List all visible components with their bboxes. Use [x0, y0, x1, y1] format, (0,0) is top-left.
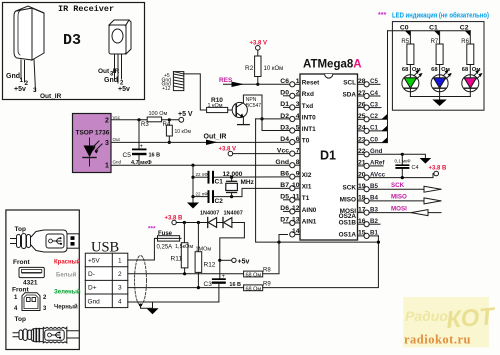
resistor R3 [141, 111, 167, 128]
svg-text:16 В: 16 В [149, 153, 161, 159]
MCU pin 13 D7 AIN1 [280, 217, 317, 226]
USB connectors box [6, 210, 79, 350]
wire emitter to ground [242, 117, 244, 124]
svg-text:C4: C4 [412, 165, 419, 171]
ground symbol USB [139, 302, 159, 314]
MCU pin 8 Gnd [275, 159, 300, 168]
svg-text:1МОм: 1МОм [196, 247, 212, 253]
op-amp? no: MCU U1 ATMega8A body [300, 59, 362, 241]
resistor R8 68 Ом [244, 268, 272, 279]
ground symbol (crystal caps) [187, 203, 199, 209]
svg-text:R9: R9 [263, 282, 271, 288]
MCU pin 20 AVcc [358, 171, 386, 180]
LED C0 [402, 70, 422, 97]
svg-text:1: 1 [105, 163, 109, 170]
svg-text:+: + [140, 144, 144, 150]
resistor R7 68 Ом [431, 31, 450, 75]
terminal +5 V [178, 111, 193, 122]
wire gnd branch down [192, 165, 194, 202]
svg-text:SCK: SCK [343, 185, 357, 192]
cable ellipse [135, 255, 147, 305]
svg-text:10: 10 [292, 182, 300, 189]
svg-text:Vcc: Vcc [113, 115, 121, 120]
wire stub pin 3 [284, 106, 290, 108]
MCU pin 12 D6 AIN0 [280, 205, 317, 214]
svg-text:2: 2 [118, 271, 122, 278]
node crystal gnd branch [191, 164, 194, 167]
wire D- rail [128, 273, 244, 275]
capacitor C5 [123, 120, 161, 166]
MCU pin 3 D1 Txd [280, 101, 313, 110]
svg-text:Reset: Reset [302, 80, 320, 87]
svg-text:C2: C2 [215, 198, 224, 205]
wire Gnd pin22 [369, 154, 425, 158]
transistor Q1 NPN BC547 [232, 97, 261, 118]
wire C0 to LED bus [369, 137, 387, 143]
MCU pin 18 B4 MISO [340, 195, 379, 204]
USB pin table [85, 253, 128, 307]
LED cathode rail [410, 96, 470, 98]
svg-text:20: 20 [358, 171, 366, 178]
svg-text:17: 17 [358, 206, 366, 213]
svg-text:68: 68 [431, 67, 438, 73]
node C5 branch [137, 118, 140, 121]
MCU pin 28 C5 SCL [343, 78, 378, 87]
svg-text:Vcc: Vcc [277, 147, 289, 154]
svg-text:19: 19 [358, 183, 366, 190]
wire R3 to +5V [162, 119, 179, 121]
svg-text:SDA: SDA [343, 91, 357, 98]
USB-A plug drawing top [11, 230, 80, 252]
svg-text:10 кОм: 10 кОм [175, 129, 192, 135]
svg-text:radiokot.ru: radiokot.ru [404, 333, 471, 347]
wire fuse to +3.8 node [183, 223, 185, 243]
svg-text:AIN1: AIN1 [302, 218, 317, 225]
MCU pin 2 D0 Rxd [280, 90, 314, 99]
ground symbol LED box [432, 97, 446, 107]
svg-text:68: 68 [462, 67, 469, 73]
TSOP 1736 module U2 [73, 114, 112, 173]
svg-text:1: 1 [20, 77, 24, 84]
MCU pin 15 B1 OS1A [339, 230, 379, 239]
resistor R9 68 Ом [244, 282, 272, 293]
wire C2 to LED bus [369, 114, 387, 120]
svg-text:11: 11 [292, 194, 299, 201]
svg-text:T0: T0 [302, 137, 310, 144]
svg-text:Front: Front [13, 259, 30, 266]
svg-text:1 кОм: 1 кОм [208, 103, 223, 109]
crystal X1 12.000 MHz [223, 171, 255, 198]
wire R8 to pin14 net [263, 242, 279, 274]
svg-text:R2: R2 [245, 65, 254, 72]
svg-text:C1: C1 [429, 24, 438, 31]
svg-text:23: 23 [358, 136, 366, 143]
resistor R6 68 Ом [461, 31, 480, 75]
svg-text:C0: C0 [400, 24, 409, 31]
capacitor C4 0,1 мкФ [395, 154, 419, 177]
USB-B front view [14, 293, 47, 312]
label LED индикация [378, 11, 489, 20]
wire R9 to B1 net [263, 236, 379, 288]
svg-text:24: 24 [358, 125, 366, 132]
TSOP pin tiny labels [113, 115, 122, 165]
svg-text:SCL: SCL [343, 80, 356, 87]
wire R10 to base [228, 109, 237, 111]
svg-text:***: *** [378, 12, 386, 19]
svg-text:16: 16 [358, 218, 366, 225]
svg-text:MOSI: MOSI [391, 205, 407, 212]
svg-text:22: 22 [358, 148, 366, 155]
resistor R5 68 Ом [401, 31, 420, 75]
resistor R4 [163, 120, 192, 144]
wire ISP to R10 [184, 74, 207, 110]
svg-text:Txd: Txd [302, 103, 313, 110]
svg-text:R4: R4 [163, 122, 171, 128]
svg-text:Out_IR: Out_IR [40, 93, 62, 100]
svg-text:OS1A: OS1A [339, 231, 357, 238]
node +5v [218, 259, 221, 262]
wire ARef stub [369, 165, 383, 167]
svg-text:28: 28 [358, 78, 366, 85]
svg-text:T1: T1 [302, 195, 310, 202]
svg-text:BC547: BC547 [246, 103, 262, 109]
svg-text:AIN0: AIN0 [302, 207, 317, 214]
ground bar (emitter) [238, 124, 250, 126]
svg-text:Gnd: Gnd [88, 299, 101, 306]
svg-text:9: 9 [296, 171, 300, 178]
svg-text:R12: R12 [204, 262, 216, 269]
svg-text:Красный: Красный [54, 259, 81, 266]
MCU pin 24 C1 [358, 125, 379, 134]
svg-text:Gnd: Gnd [113, 160, 122, 165]
svg-text:22 пФ: 22 пФ [196, 191, 209, 196]
svg-text:3: 3 [105, 140, 109, 147]
wire stub pin 11 [284, 199, 290, 201]
LED C1 [431, 70, 451, 97]
wire INT1 pin5 [262, 130, 290, 132]
wire diode output loop to +5v rail [220, 223, 245, 279]
terminal +3.8V on Vcc row [228, 151, 233, 156]
MCU pin 1 C6 Reset [280, 78, 320, 87]
svg-text:Top: Top [15, 226, 26, 233]
svg-text:1N4007: 1N4007 [200, 211, 219, 217]
svg-text:Top: Top [15, 316, 26, 323]
MCU pin 7 Vcc [277, 147, 300, 156]
wire INT0 pin4 [256, 118, 290, 120]
wire Gnd rail to C3 [128, 301, 219, 303]
resistor R10 [207, 97, 228, 113]
svg-text:C1: C1 [215, 179, 224, 186]
svg-text:D1: D1 [320, 149, 336, 163]
MCU pin 9 B6 XI2 [280, 171, 312, 180]
svg-text:2: 2 [105, 118, 109, 125]
USB-B plug drawing bottom [13, 327, 79, 343]
wire pin14 / collector net horizontal [256, 119, 379, 242]
IR Receiver box D3 [3, 3, 145, 100]
svg-text:5: 5 [296, 124, 300, 131]
svg-text:15: 15 [358, 230, 366, 237]
svg-text:7: 7 [296, 147, 300, 154]
resistor R11 [171, 243, 194, 276]
wire +3.8 node [176, 222, 207, 224]
MCU pin 21 ARef [358, 160, 386, 169]
svg-text:C5: C5 [123, 152, 132, 159]
svg-text:13: 13 [292, 217, 300, 224]
ground symbol (AVcc filter) [420, 158, 432, 164]
fuse FU1 0,25A [156, 231, 181, 251]
terminal +5v [220, 258, 250, 265]
svg-text:+5v: +5v [14, 86, 26, 93]
svg-text:MISO: MISO [340, 196, 356, 203]
bus entry wedge C0 [405, 31, 411, 37]
svg-text:C2: C2 [460, 24, 469, 31]
svg-text:22 пФ: 22 пФ [196, 172, 209, 177]
svg-text:4: 4 [118, 299, 122, 306]
svg-text:1: 1 [118, 258, 122, 265]
svg-text:12.000: 12.000 [223, 171, 243, 178]
wire D+ rail [128, 287, 244, 289]
capacitor C3 [204, 274, 242, 302]
LED C2 [462, 70, 482, 97]
svg-text:SCK: SCK [391, 182, 405, 189]
wire B1 to R9 [369, 235, 378, 237]
svg-text:Зеленый: Зеленый [54, 289, 81, 296]
svg-text:Черный: Черный [54, 304, 78, 311]
svg-text:MISO: MISO [391, 194, 407, 201]
svg-text:C6: C6 [280, 78, 289, 85]
bus entry wedge C1 [434, 31, 440, 37]
MCU pin 6 D4 T0 [280, 136, 309, 145]
svg-text:C3: C3 [204, 281, 213, 288]
svg-text:ATMega8A: ATMega8A [303, 59, 362, 71]
svg-text:25: 25 [358, 113, 366, 120]
svg-text:14: 14 [292, 228, 300, 235]
wire Gnd rail TSOP pin1 to MCU pin8 [111, 164, 290, 166]
svg-text:1: 1 [296, 78, 300, 85]
capacitor C1 [191, 171, 223, 186]
MCU pin 17 B3 MOSI [339, 206, 379, 220]
svg-text:10 кОм: 10 кОм [264, 66, 284, 72]
svg-text:+5 V: +5 V [178, 111, 193, 118]
IR package left pin labels [6, 73, 62, 100]
svg-text:0,1 мкФ: 0,1 мкФ [395, 159, 412, 164]
MCU pin 10 B7 XI1 [280, 182, 312, 191]
svg-text:12: 12 [292, 205, 300, 212]
svg-text:Gnd: Gnd [6, 73, 20, 80]
wire AVcc to +3.8V [369, 166, 447, 180]
svg-text:D4: D4 [280, 136, 289, 143]
MCU pin 4 D2 INT0 [280, 113, 316, 122]
resistor R12 [195, 223, 216, 290]
svg-text:D3: D3 [63, 32, 81, 49]
wire SCK net [369, 182, 441, 192]
USB-A front view 4321 [19, 267, 44, 286]
wire Vcc row to MCU pin7 [233, 153, 290, 155]
svg-text:+3.8 В: +3.8 В [429, 166, 448, 172]
svg-text:XI2: XI2 [302, 172, 312, 179]
svg-text:D+: D+ [88, 285, 97, 292]
svg-text:+12: +12 [162, 86, 171, 92]
bus horizontal in LED box [388, 30, 471, 32]
LED box [392, 22, 484, 111]
svg-text:Rxd: Rxd [302, 91, 314, 98]
svg-text:2: 2 [296, 90, 300, 97]
svg-text:B6: B6 [280, 171, 289, 178]
svg-text:R8: R8 [263, 268, 271, 274]
svg-text:1N4007: 1N4007 [224, 211, 243, 217]
IR package left (3D view) [14, 6, 44, 91]
svg-text:INT1: INT1 [302, 126, 316, 133]
Out_IR net arrow and label [204, 134, 227, 146]
IR package right pin labels [98, 68, 130, 93]
MCU pin 16 B2 OS1B [339, 218, 379, 227]
RES net label and arrow [219, 77, 290, 87]
svg-text:+: + [222, 274, 226, 280]
svg-text:D2: D2 [280, 113, 289, 120]
svg-text:+3.8 V: +3.8 V [219, 147, 237, 153]
svg-text:TSOP 1736: TSOP 1736 [76, 130, 110, 137]
bus entry wedge C2 [465, 31, 471, 37]
watermark radiokot [403, 297, 497, 347]
svg-text:1,5кОм: 1,5кОм [175, 244, 193, 250]
svg-text:3: 3 [296, 101, 300, 108]
wire Out_IR net TSOP pin3 to MCU T0 [111, 141, 290, 143]
wire stub pin 12 [284, 210, 290, 212]
svg-text:27: 27 [358, 90, 366, 97]
wire stub pin 2 [284, 95, 290, 97]
svg-text:INT0: INT0 [302, 114, 316, 121]
svg-text:+5V: +5V [88, 258, 100, 265]
wire MISO net [369, 194, 441, 204]
MCU pin 19 B5 SCK [343, 183, 379, 192]
svg-text:8: 8 [296, 159, 300, 166]
resistor R2 [245, 41, 283, 86]
svg-text:3: 3 [33, 87, 37, 94]
svg-text:6: 6 [296, 136, 300, 143]
bus C0-C2 vertical [387, 31, 389, 143]
wire between diodes [217, 222, 223, 224]
svg-text:21: 21 [358, 160, 366, 167]
svg-text:100 Ом: 100 Ом [149, 111, 168, 117]
MCU pin 14 [290, 228, 300, 237]
MCU pin 25 C2 [358, 113, 379, 122]
svg-text:0,25A: 0,25A [157, 245, 173, 251]
wire MOSI net [369, 205, 441, 215]
svg-text:IR Receiver: IR Receiver [58, 4, 114, 14]
MCU pin 27 C4 SDA [343, 90, 379, 99]
terminal +3.8В [172, 220, 176, 224]
svg-text:КОТ: КОТ [445, 303, 497, 334]
MCU pin 22 Gnd [358, 148, 383, 157]
svg-text:LED индикация (не обязательно): LED индикация (не обязательно) [392, 11, 489, 20]
svg-text:68: 68 [402, 67, 409, 73]
TSOP photodiode symbol [83, 138, 102, 166]
svg-text:XI1: XI1 [302, 184, 312, 191]
wire C1 to LED bus [369, 125, 387, 130]
ISP connector X2 [162, 72, 184, 92]
svg-text:Out: Out [113, 137, 121, 142]
svg-text:4: 4 [296, 113, 300, 120]
svg-text:D3: D3 [280, 124, 289, 131]
wire +5V row to fuse [128, 238, 158, 260]
MCU pin 11 D5 T1 [280, 194, 309, 203]
svg-text:+5v: +5v [238, 259, 250, 266]
svg-text:OS1B: OS1B [339, 220, 357, 227]
svg-text:***: *** [148, 226, 156, 233]
diode VD1 1N4007 [200, 211, 219, 228]
svg-text:18: 18 [358, 195, 366, 202]
svg-text:+5v: +5v [118, 86, 130, 93]
wire SDA C4 stub [369, 95, 380, 97]
wire B2 stub [369, 223, 380, 225]
svg-text:Белый: Белый [56, 272, 77, 279]
capacitor C2 [191, 190, 223, 205]
wire TSOP Vcc to R3 [111, 119, 147, 121]
svg-text:R11: R11 [171, 256, 183, 263]
svg-text:MHz: MHz [241, 179, 255, 186]
MCU pin 5 D3 INT1 [280, 124, 316, 133]
svg-text:Gnd: Gnd [275, 159, 289, 166]
svg-text:R3: R3 [141, 122, 149, 128]
wire C2 to XI1 pin10 [214, 188, 290, 196]
svg-text:RES: RES [219, 77, 233, 84]
IR package right (3D view with lens) [109, 20, 131, 83]
svg-text:68 Ом: 68 Ом [246, 273, 262, 279]
svg-text:4321: 4321 [23, 280, 38, 287]
svg-text:26: 26 [358, 101, 366, 108]
wire SCL C5 stub [369, 83, 380, 85]
svg-text:Out_IR: Out_IR [98, 68, 120, 75]
MCU pin 23 C0 [358, 136, 379, 145]
svg-text:Fuse: Fuse [158, 231, 173, 237]
svg-text:Out_IR: Out_IR [204, 134, 227, 141]
diode VD2 1N4007 [223, 211, 243, 228]
svg-text:Gnd: Gnd [104, 77, 118, 84]
wire collector to INT0/INT1 [243, 95, 262, 131]
wire C1 to XI2 pin9 [214, 176, 290, 178]
svg-text:B7: B7 [280, 182, 289, 189]
wire stub pin 13 [284, 222, 290, 224]
MCU pin 26 C3 [358, 101, 379, 110]
wire C3 stub [369, 107, 381, 109]
svg-text:D-: D- [88, 271, 95, 278]
svg-text:3: 3 [118, 285, 122, 292]
svg-text:Радио: Радио [405, 308, 448, 324]
wire pin14 stub down [279, 235, 288, 243]
svg-text:68 Ом: 68 Ом [246, 286, 262, 292]
